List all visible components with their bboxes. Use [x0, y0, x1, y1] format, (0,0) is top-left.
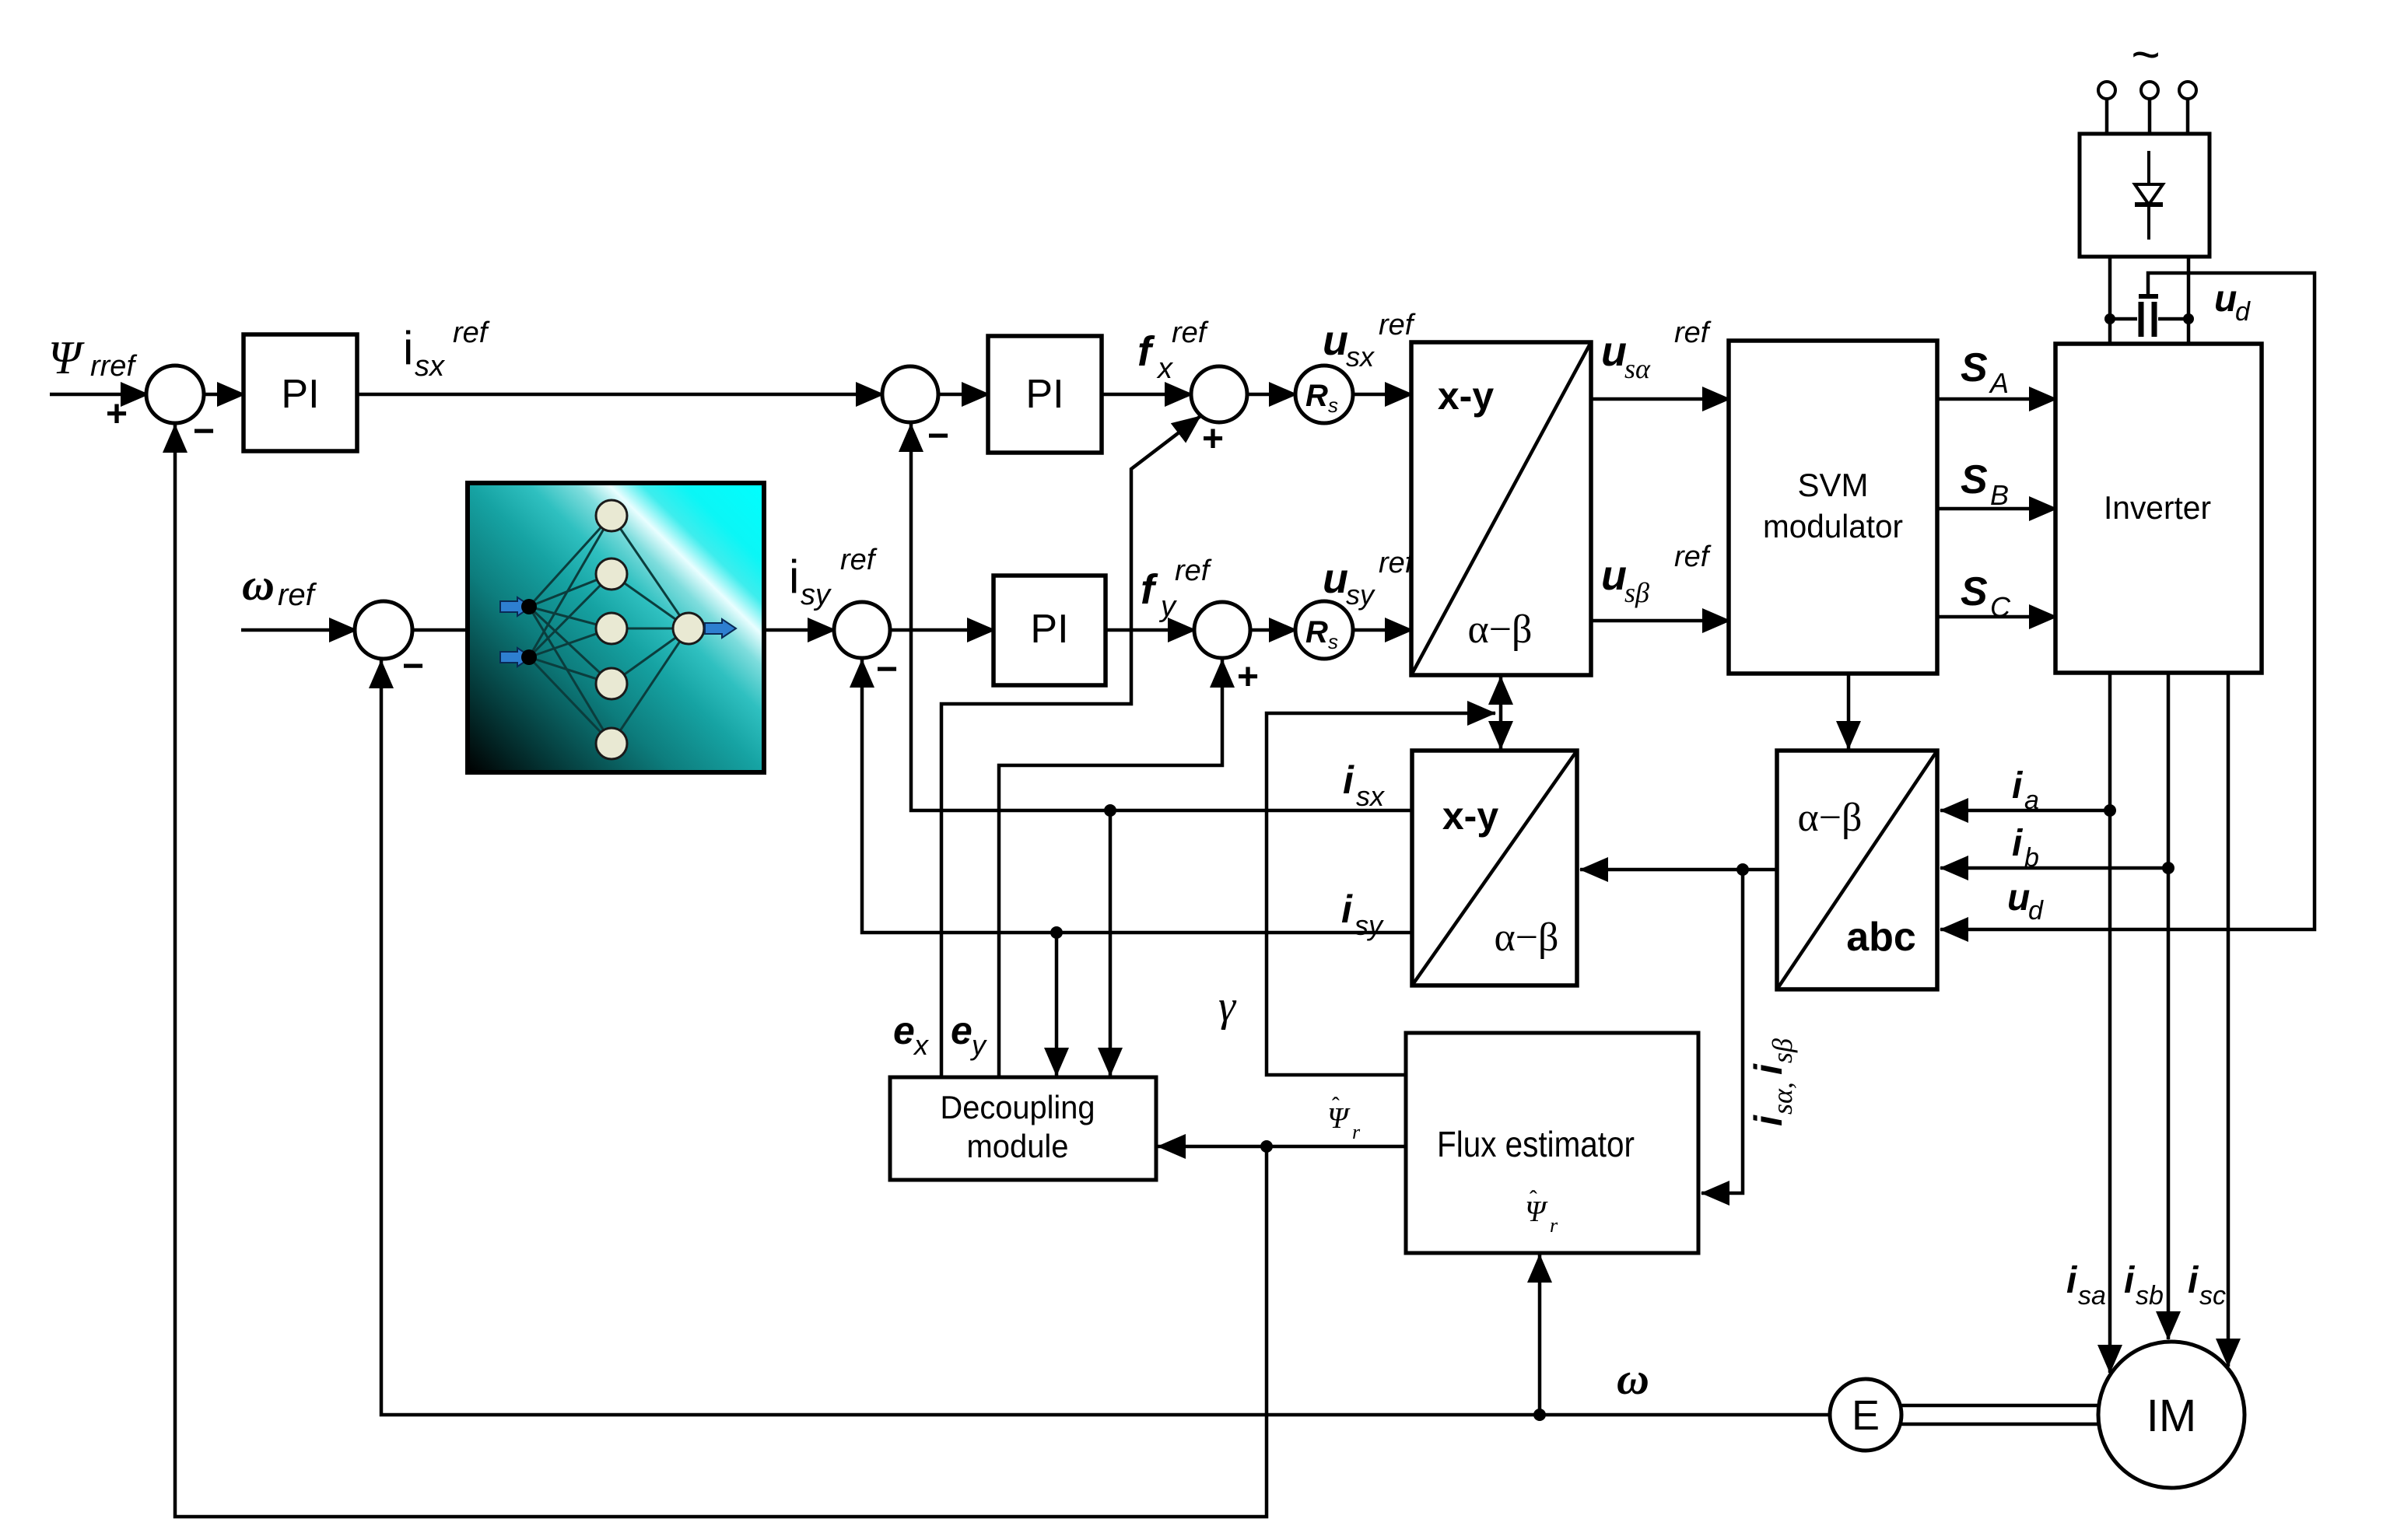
label x-y in B4 [1442, 794, 1498, 838]
svg-text:ˆ: ˆ [1530, 1187, 1537, 1213]
wire gamma angle from flux estimator [1267, 713, 1495, 1075]
svg-text:y: y [1158, 590, 1177, 623]
wire gate signal S_B to inverter [1937, 507, 2057, 511]
svg-text:u: u [1323, 317, 1348, 364]
svg-text:sa: sa [2078, 1281, 2106, 1311]
wire AC terminal C to rectifier [2186, 99, 2190, 135]
svg-text:ω: ω [1617, 1353, 1649, 1404]
diagonal of transform block B1 [1411, 342, 1591, 675]
svg-text:S: S [1961, 569, 1988, 614]
label AC mains tilde [2131, 26, 2160, 82]
summing junction S6 (f_y + e_y) [1194, 602, 1250, 658]
label alpha-beta in B4 [1494, 915, 1558, 960]
wire PI1 output i_sx_ref to summing junction S2 [357, 393, 884, 397]
svg-text:modulator: modulator [1763, 508, 1903, 544]
svg-text:i: i [1747, 1063, 1790, 1075]
svg-text:Decoupling: Decoupling [941, 1089, 1095, 1125]
svg-text:u: u [2214, 278, 2237, 320]
coordinate transform block B1 (x-y to alpha-beta) [1411, 342, 1591, 675]
wire AC terminal A to rectifier [2105, 99, 2109, 135]
label PI2 [1025, 372, 1064, 417]
svg-text:IM: IM [2146, 1391, 2196, 1441]
svg-text:sy: sy [801, 579, 832, 611]
svg-text:ref: ref [840, 544, 878, 576]
svg-text:sc: sc [2199, 1281, 2226, 1311]
junction dot i_b tap [2162, 862, 2174, 874]
wire i_b measurement to B3 [1940, 866, 2168, 870]
svg-text:x: x [1156, 352, 1174, 385]
svg-text:i: i [2188, 1260, 2199, 1301]
svg-text:sα: sα [1624, 353, 1651, 384]
wire psi_rref input into summing junction S1 [50, 393, 149, 397]
svg-text:d: d [2028, 896, 2044, 926]
coordinate transform block B3 (abc to alpha-beta) [1777, 751, 1937, 989]
svg-text:γ: γ [1218, 982, 1237, 1031]
wire rectifier DC+ down to inverter [2108, 257, 2112, 345]
flux estimator block [1406, 1033, 1698, 1253]
svg-text:ref: ref [453, 317, 490, 349]
wire inverter phase b to motor [2167, 673, 2171, 1339]
label i_sy_ref [789, 544, 878, 611]
junction dot on i_salpha beta line [1736, 863, 1749, 876]
wire S3 to Rs1 [1247, 393, 1297, 397]
label i_sx [1343, 758, 1386, 812]
label Decoupling module [941, 1089, 1095, 1164]
minus sign at S4 [402, 646, 424, 687]
gain block Rs2 (stator resistance) [1295, 601, 1353, 659]
shaft between encoder and motor [1901, 1405, 2099, 1424]
minus sign at S1 [193, 411, 215, 452]
svg-text:ω: ω [242, 559, 275, 610]
svg-text:−: − [402, 646, 424, 687]
summing junction S4 (speed error) [355, 601, 412, 659]
svg-text:sβ: sβ [1624, 577, 1649, 608]
neural network speed controller block (gradient image) [468, 483, 764, 772]
wire u_sbeta_ref B1 to SVM [1591, 619, 1730, 623]
svg-text:SVM: SVM [1797, 467, 1868, 503]
wire Rs1 output u_sx_ref into transform block B1 [1353, 393, 1413, 397]
svg-text:sy: sy [1354, 909, 1384, 941]
wire S1 to PI1 [204, 393, 245, 397]
label u_salpha_ref [1601, 317, 1712, 384]
wire i_a measurement to B3 [1940, 809, 2110, 813]
svg-text:x: x [913, 1029, 930, 1061]
svg-text:sx: sx [1356, 780, 1386, 812]
label psi_r_hat inside flux estimator [1525, 1187, 1558, 1237]
label PI1 [281, 372, 319, 417]
wire AC terminal B to rectifier [2148, 99, 2152, 135]
summing junction S3 (f_x + e_x) [1191, 366, 1247, 422]
svg-text:+: + [1202, 418, 1224, 460]
label S_C [1961, 569, 2011, 623]
wire i_salpha i_sbeta tap to flux estimator [1701, 870, 1743, 1193]
svg-text:u: u [1323, 555, 1348, 602]
label i_b [2012, 823, 2039, 873]
svg-text:x-y: x-y [1438, 374, 1494, 418]
svg-text:module: module [967, 1128, 1069, 1164]
svg-text:Flux estimator: Flux estimator [1437, 1124, 1635, 1164]
svg-text:sx: sx [1346, 341, 1375, 373]
PI controller PI2 (i_sx) [988, 336, 1102, 453]
svg-text:b: b [2024, 843, 2039, 873]
label psi_rref (rotor flux reference) [48, 332, 137, 383]
svg-text:α−β: α−β [1467, 607, 1532, 652]
svg-text:i: i [2124, 1260, 2136, 1301]
label i_sy [1341, 887, 1384, 941]
induction motor IM [2098, 1342, 2245, 1488]
wire psi_r_hat feedback to summing junction S1 [175, 425, 1267, 1517]
junction dot on psi_r_hat line [1260, 1140, 1273, 1153]
wire i_sx from B4 to summing junction S2 [911, 424, 1411, 810]
label psi_r_hat on wire [1327, 1094, 1361, 1143]
wire S6 to Rs2 [1250, 628, 1297, 632]
svg-text:E: E [1852, 1392, 1880, 1439]
svg-text:sy: sy [1346, 579, 1375, 611]
svg-text:PI: PI [1030, 607, 1068, 652]
wire PI3 output f_y_ref to summing junction S6 [1106, 628, 1196, 632]
svg-text:i: i [2066, 1260, 2078, 1301]
label IM [2146, 1391, 2196, 1441]
label S_A [1961, 345, 2009, 399]
wire u_salpha_ref B1 to SVM [1591, 397, 1730, 401]
svg-text:ref: ref [1175, 555, 1212, 587]
label i_sc [2188, 1260, 2226, 1311]
label gamma [1218, 982, 1237, 1031]
wire psi_r_hat from flux estimator to decoupling module [1158, 1145, 1406, 1149]
diode symbol inside rectifier [2135, 151, 2163, 240]
label Rs1 [1305, 379, 1338, 417]
svg-text:PI: PI [1025, 372, 1064, 417]
wire omega tap up into flux estimator [1538, 1255, 1542, 1415]
svg-text:u: u [1601, 552, 1627, 599]
wire omega_ref input into summing junction S4 [241, 628, 357, 632]
wire NN output i_sy_ref to summing junction S5 [764, 628, 836, 632]
svg-text:R: R [1305, 379, 1328, 413]
label i_sb [2124, 1260, 2164, 1311]
label SVM modulator [1763, 467, 1903, 544]
svg-text:r: r [1550, 1214, 1558, 1237]
wire inverter phase c to motor [2227, 673, 2231, 1367]
svg-text:+: + [106, 394, 128, 435]
svg-text:i: i [1341, 887, 1353, 931]
svg-text:ref: ref [1379, 309, 1416, 341]
wire gate signal S_C to inverter [1937, 615, 2057, 619]
minus sign at S5 [876, 649, 898, 690]
wire gate signal S_A to inverter [1937, 397, 2057, 401]
label alpha-beta in B3 [1797, 796, 1862, 840]
label PI3 [1030, 607, 1068, 652]
svg-text:s: s [1328, 394, 1338, 417]
DC link capacitor [2110, 296, 2188, 337]
decoupling module block [890, 1077, 1156, 1180]
svg-text:Ψ: Ψ [48, 332, 85, 383]
wire i_sy from B4 to summing junction S5 [862, 660, 1411, 933]
summing junction S2 (i_sx error) [882, 366, 938, 422]
label e_x [893, 1009, 930, 1061]
svg-text:S: S [1961, 345, 1988, 390]
wire i_sy tap down into decoupling module [1055, 933, 1059, 1076]
wire Rs2 output u_sy_ref into transform block B1 [1353, 628, 1413, 632]
label u_sx_ref [1323, 309, 1416, 373]
label x-y in B1 [1438, 374, 1494, 418]
svg-text:y: y [969, 1029, 987, 1061]
AC terminal C [2179, 82, 2196, 99]
label i_sx_ref [403, 317, 490, 383]
wire gamma vertical double arrow into B4 [1499, 723, 1503, 749]
wire e_x from decoupling module to S3 [941, 416, 1200, 1077]
label i_a [2012, 765, 2039, 815]
svg-text:~: ~ [2131, 26, 2160, 82]
label abc in B3 [1846, 915, 1916, 960]
wire gamma vertical double arrow into B1 and B4 [1499, 677, 1503, 740]
wire inverter phase a to motor [2108, 673, 2112, 1373]
svg-text:ref: ref [1674, 317, 1712, 349]
plus sign at S1 [106, 394, 128, 435]
svg-text:−: − [876, 649, 898, 690]
wire e_y from decoupling module to S6 [999, 660, 1222, 1077]
label alpha-beta in B1 [1467, 607, 1532, 652]
label omega [1617, 1353, 1649, 1404]
svg-text:abc: abc [1846, 915, 1916, 960]
junction dot on i_sx line [1104, 804, 1116, 817]
svg-text:x-y: x-y [1442, 794, 1498, 838]
svg-text:u: u [1601, 328, 1627, 375]
PI controller PI3 (i_sy) [993, 576, 1106, 685]
PI controller PI1 (flux) [244, 334, 357, 451]
gain block Rs1 (stator resistance) [1295, 366, 1353, 423]
diagonal of transform block B4 [1412, 751, 1577, 985]
label u_d right side [2007, 877, 2044, 926]
svg-text:rref: rref [90, 350, 137, 383]
AC terminal B [2141, 82, 2158, 99]
svg-text:α−β: α−β [1494, 915, 1558, 960]
junction dot on omega line [1533, 1409, 1546, 1421]
svg-text:r: r [1352, 1121, 1361, 1143]
label omega_ref [242, 559, 317, 612]
diagonal of transform block B3 [1777, 751, 1937, 989]
label i_sa [2066, 1260, 2106, 1311]
wire S5 to PI3 [890, 628, 995, 632]
label u_sbeta_ref [1601, 541, 1712, 608]
svg-text:e: e [893, 1009, 915, 1052]
plus sign at S6 [1237, 656, 1259, 698]
wire i_sx tap down into decoupling module [1109, 810, 1113, 1076]
label e_y [951, 1009, 987, 1061]
plus sign at S3 [1202, 418, 1224, 460]
junction dot i_a tap [2104, 804, 2116, 817]
minus sign at S2 [927, 415, 949, 457]
wire SVM angle output down to B3 [1847, 674, 1851, 749]
svg-text:B: B [1990, 479, 2009, 511]
summing junction S5 (i_sy error) [834, 602, 890, 658]
svg-text:i: i [1343, 758, 1354, 802]
svg-text:Inverter: Inverter [2104, 489, 2211, 526]
svg-text:ˆ: ˆ [1332, 1094, 1340, 1119]
svg-text:sα,: sα, [1767, 1082, 1798, 1115]
svg-text:−: − [927, 415, 949, 457]
svg-text:s: s [1328, 630, 1338, 653]
svg-text:α−β: α−β [1797, 796, 1862, 840]
svg-text:a: a [2024, 786, 2039, 815]
wire PI2 output f_x_ref to summing junction S3 [1102, 393, 1193, 397]
svg-text:ref: ref [1172, 317, 1209, 349]
wire u_d measurement from capacitor to abc transform [1940, 273, 2315, 929]
label u_d top [2214, 278, 2251, 327]
svg-text:sx: sx [415, 350, 446, 383]
inverter block [2055, 344, 2262, 673]
svg-text:u: u [2007, 877, 2030, 919]
coordinate transform block B4 (alpha-beta to x-y currents) [1412, 751, 1577, 985]
SVM modulator block [1729, 341, 1937, 674]
label Inverter [2104, 489, 2211, 526]
encoder E [1830, 1379, 1901, 1451]
label S_B [1961, 457, 2009, 511]
junction dot capacitor right [2183, 313, 2194, 324]
wire rectifier DC- down to inverter [2187, 257, 2191, 345]
label f_x_ref [1137, 317, 1209, 385]
svg-text:−: − [193, 411, 215, 452]
svg-text:A: A [1989, 367, 2009, 399]
wire omega speed feedback from encoder to S4 [381, 660, 1830, 1415]
svg-text:sβ: sβ [1767, 1038, 1798, 1063]
svg-text:d: d [2235, 297, 2251, 327]
junction dot capacitor left [2104, 313, 2115, 324]
label i_salpha i_sbeta (rotated) [1747, 1038, 1798, 1126]
svg-text:ref: ref [278, 578, 317, 612]
wire S4 to neural network block [412, 628, 469, 632]
junction dot on i_sy line [1050, 926, 1063, 939]
label E [1852, 1392, 1880, 1439]
AC terminal A [2098, 82, 2115, 99]
svg-text:sb: sb [2136, 1281, 2164, 1311]
label f_y_ref [1141, 555, 1212, 623]
label Rs2 [1305, 615, 1338, 653]
svg-text:R: R [1305, 615, 1328, 649]
svg-text:i: i [403, 322, 413, 374]
svg-text:i: i [2012, 823, 2024, 864]
summing junction S1 (flux error) [146, 366, 204, 423]
svg-text:i: i [2012, 765, 2024, 807]
wire i_salpha i_sbeta from B3 to B4 [1580, 868, 1777, 872]
svg-text:ref: ref [1674, 541, 1712, 573]
label Flux estimator [1437, 1124, 1635, 1164]
svg-text:e: e [951, 1009, 972, 1052]
svg-text:i: i [1747, 1115, 1790, 1126]
svg-text:PI: PI [281, 372, 319, 417]
rectifier block [2080, 134, 2210, 257]
wire S2 to PI2 [938, 393, 990, 397]
svg-text:i: i [789, 551, 799, 603]
svg-text:+: + [1237, 656, 1259, 698]
svg-text:S: S [1961, 457, 1988, 502]
label u_sy_ref [1323, 547, 1416, 611]
